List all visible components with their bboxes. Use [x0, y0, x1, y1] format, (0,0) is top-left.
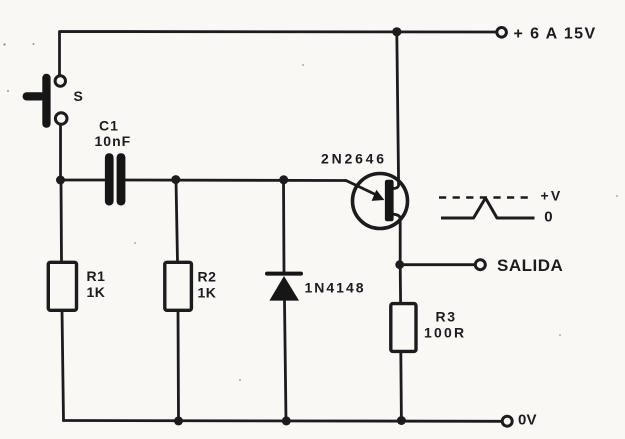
svg-text:+ 6 A 15V: + 6 A 15V	[514, 26, 597, 43]
svg-text:R2: R2	[198, 269, 217, 285]
svg-text:R3: R3	[436, 308, 457, 324]
svg-text:10nF: 10nF	[95, 133, 132, 149]
svg-text:100R: 100R	[424, 325, 466, 341]
svg-text:+V: +V	[541, 187, 563, 203]
svg-text:0: 0	[544, 209, 552, 226]
svg-text:C1: C1	[99, 118, 119, 134]
svg-text:1K: 1K	[87, 284, 106, 300]
svg-text:2N2646: 2N2646	[321, 150, 387, 166]
svg-text:S: S	[74, 88, 83, 104]
svg-text:1N4148: 1N4148	[305, 280, 366, 296]
svg-text:SALIDA: SALIDA	[497, 256, 563, 275]
svg-text:R1: R1	[87, 268, 106, 284]
svg-text:0V: 0V	[518, 412, 537, 429]
svg-text:1K: 1K	[198, 284, 217, 300]
